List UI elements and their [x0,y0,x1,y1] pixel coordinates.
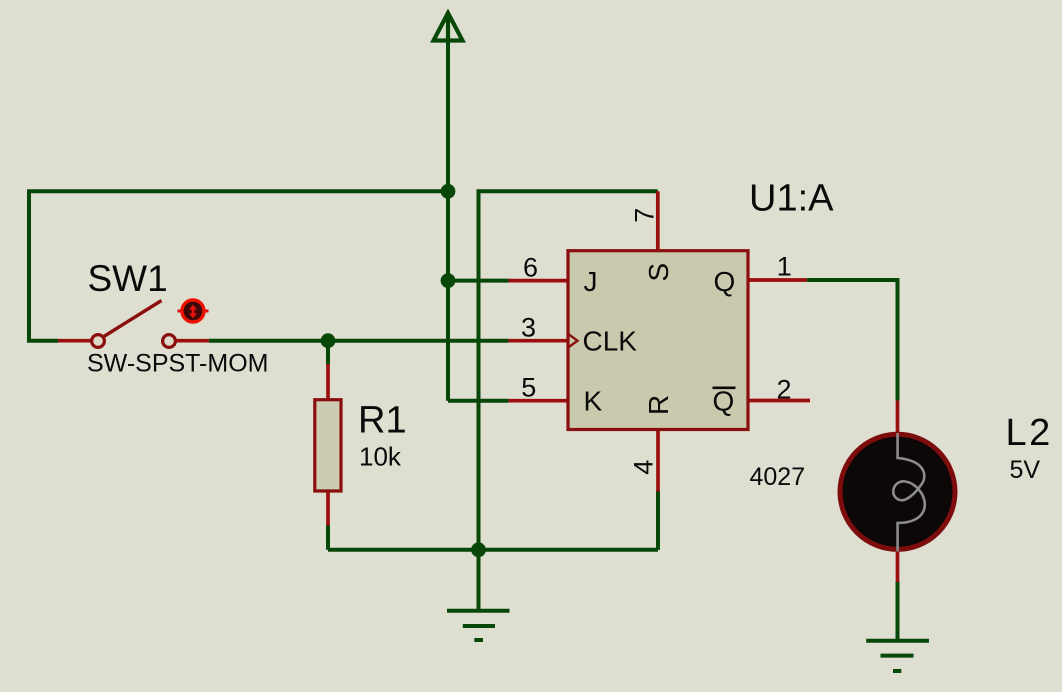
pin stub R (4) [656,430,660,492]
svg-text:CLK: CLK [583,326,638,357]
switch SW1 right pole [163,335,176,348]
wire: CLK net from switch to chip [209,339,509,343]
pin stub switch left [58,339,91,343]
wire: lamp bottom to ground [896,582,900,639]
svg-text:U1:A: U1:A [749,178,834,220]
IC U1:A 4027 JK flip-flop body [568,251,748,430]
pin stub S (7) [656,191,660,250]
pin stub Qbar (2) [748,399,810,403]
junction node CLK/R1 [321,333,336,348]
svg-text:7: 7 [630,208,660,223]
CLK input edge-trigger triangle [568,334,578,348]
svg-text:1: 1 [777,251,792,281]
svg-text:L2: L2 [1006,412,1053,454]
pin stub CLK (3) [509,339,568,343]
power symbol VCC arrow [434,13,463,44]
svg-text:R: R [643,395,674,415]
svg-text:Q: Q [714,266,736,297]
wire: bottom ground rail y=549.8 [328,548,658,552]
resistor R1 [315,400,341,491]
junction node J row [441,273,456,288]
svg-text:3: 3 [521,313,536,343]
wire: R1 bottom green stub [326,525,330,550]
switch SW1 lever [103,301,162,338]
svg-text:S: S [643,263,674,282]
wire: pin7-to-ground vertical x=478.5 and top run to pin 7 [479,191,658,550]
junction node power/top-left [441,184,456,199]
ground symbol lamp [866,641,929,671]
svg-text:J: J [584,266,598,297]
pin stub R1 bottom [326,490,330,526]
wire: top horizontal + left vertical + switch feed [29,191,448,340]
ground symbol center [447,611,510,640]
svg-text:4027: 4027 [750,463,806,491]
pin stub Q (1) [748,278,807,282]
wire: J pin net y=280.6 [448,279,509,283]
svg-text:SW-SPST-MOM: SW-SPST-MOM [87,349,268,377]
svg-text:Q: Q [713,386,735,417]
svg-text:4: 4 [629,460,659,475]
svg-text:5: 5 [521,373,536,403]
wire: power vertical x=448 from arrow to K row [446,42,450,401]
wire: K pin net y=400.7 [448,399,509,403]
pin stub lamp bottom [896,551,900,582]
svg-text:2: 2 [776,374,791,404]
svg-text:10k: 10k [359,442,402,472]
lamp filament [893,433,925,552]
junction node ground rail [471,542,486,557]
pin stub R1 top [326,364,330,401]
wire: R1 top green stub [326,341,330,365]
switch actuator toggle icon [178,300,209,322]
wire: ground stem below rail [477,550,481,610]
wire: pin 4 down to ground rail [656,491,660,550]
pin stub K (5) [509,399,568,403]
svg-text:6: 6 [523,252,538,282]
pin stub lamp top [896,401,900,435]
pin stub J (6) [509,279,569,283]
lamp L2 body [840,434,955,549]
svg-text:K: K [584,386,603,417]
wire: Q output to lamp [807,280,898,401]
svg-text:SW1: SW1 [88,258,168,299]
switch SW1 left pole [92,335,105,348]
svg-text:5V: 5V [1010,456,1041,484]
pin stub switch right [176,339,209,343]
svg-text:R1: R1 [358,400,407,442]
